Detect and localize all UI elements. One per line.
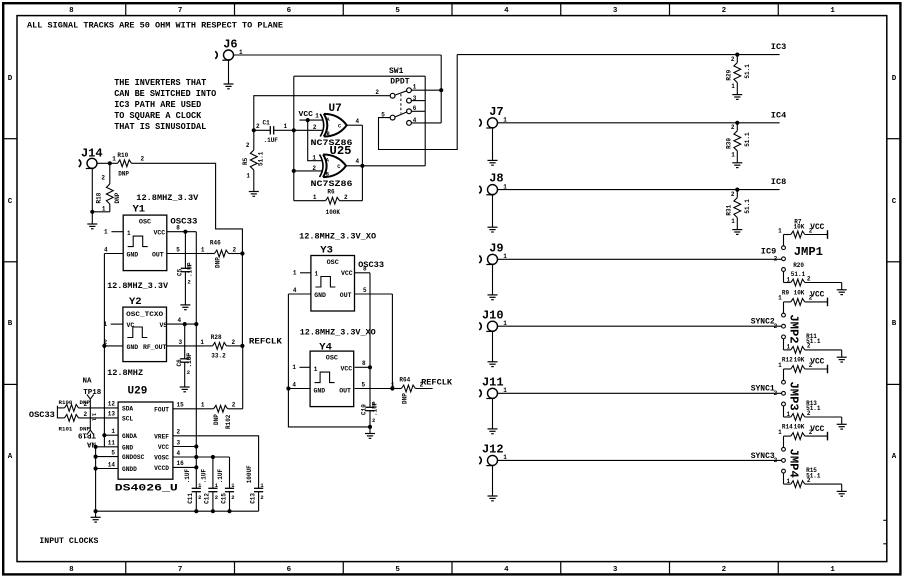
svg-text:DS4026_U: DS4026_U (115, 482, 178, 494)
svg-text:6: 6 (287, 7, 292, 15)
jumper JMP4 (782, 447, 786, 451)
resistor R13 51.1 to ground (783, 406, 785, 417)
ground J10 (488, 361, 498, 363)
svg-text:2: 2 (256, 123, 260, 130)
resistor R101 DNP (57, 417, 64, 419)
wire J9 row (498, 258, 782, 260)
svg-text:VCC: VCC (810, 291, 824, 300)
svg-text:8: 8 (362, 360, 366, 367)
wire C15 from VOSC corner (229, 457, 231, 488)
wire SW1 pin3 to loop (411, 100, 425, 102)
wire Y2 pin2 GND (104, 345, 123, 347)
node REFCLK junction (240, 344, 244, 348)
svg-text:THAT IS SINUSOIDAL: THAT IS SINUSOIDAL (114, 122, 206, 132)
svg-text:2: 2 (722, 7, 727, 15)
wire J11 ground (492, 399, 494, 429)
svg-text:R102: R102 (225, 414, 232, 429)
svg-text:16: 16 (177, 460, 185, 467)
svg-text:10K: 10K (794, 224, 805, 231)
svg-text:1: 1 (284, 123, 288, 130)
svg-text:Y1: Y1 (133, 204, 146, 216)
svg-text:1: 1 (246, 173, 250, 180)
node Y4 OUT junction (390, 386, 394, 390)
svg-text:GNDA: GNDA (122, 433, 137, 440)
capacitor C10 .1UF (369, 367, 371, 407)
svg-text:B: B (8, 320, 13, 328)
svg-text:GND: GND (314, 292, 326, 299)
svg-text:OSC33: OSC33 (170, 216, 197, 226)
svg-text:2: 2 (84, 411, 88, 418)
ground J8 (488, 226, 498, 228)
svg-text:2: 2 (731, 56, 735, 63)
svg-text:2: 2 (177, 429, 181, 436)
ground C5 (180, 304, 190, 306)
svg-text:6: 6 (287, 566, 292, 574)
svg-text:DNP: DNP (80, 426, 91, 433)
wire Y1 pin5 OUT (167, 253, 206, 255)
wire FOUT row (173, 408, 206, 410)
svg-text:.1UF: .1UF (217, 468, 224, 483)
resistor R5 51.1 vertical (253, 130, 255, 150)
svg-text:.1UF: .1UF (264, 137, 279, 144)
svg-text:2: 2 (774, 323, 778, 330)
svg-text:51.1: 51.1 (791, 271, 806, 278)
wire J10 row (498, 325, 782, 327)
svg-text:7: 7 (178, 566, 183, 574)
svg-text:VOSC: VOSC (154, 455, 169, 462)
svg-text:J6: J6 (223, 38, 237, 52)
svg-text:JMP2: JMP2 (787, 314, 801, 343)
node IC4 junction (735, 121, 739, 125)
svg-text:VCC: VCC (158, 444, 169, 451)
ground R30 (732, 162, 742, 164)
node C1 input junction (252, 128, 256, 132)
wire OSC33 bracket (56, 406, 58, 419)
svg-text:2: 2 (375, 89, 379, 96)
svg-text:51.1: 51.1 (806, 338, 821, 345)
svg-text:4: 4 (504, 566, 509, 574)
VCC R9 (827, 298, 829, 307)
svg-text:J9: J9 (489, 241, 503, 255)
ground J7 (488, 159, 498, 161)
svg-text:5: 5 (362, 381, 366, 388)
node Y3Y4 ground junction (368, 425, 372, 429)
wire bottom ground rail (96, 510, 259, 512)
svg-text:SDA: SDA (122, 406, 133, 413)
svg-text:2: 2 (233, 246, 237, 253)
svg-text:1: 1 (731, 83, 735, 90)
svg-text:5: 5 (111, 449, 115, 456)
node Y2 VS cap junction (183, 322, 187, 326)
wire IC3 output row (457, 54, 779, 56)
svg-text:R5: R5 (242, 157, 249, 165)
svg-text:2: 2 (198, 494, 201, 501)
svg-text:OSC: OSC (139, 219, 151, 227)
svg-text:2: 2 (246, 142, 250, 149)
svg-text:VCC: VCC (810, 425, 824, 434)
svg-text:.1UF: .1UF (372, 401, 379, 416)
svg-text:U29: U29 (128, 385, 148, 397)
svg-text:2: 2 (731, 124, 735, 131)
svg-text:2: 2 (101, 175, 105, 182)
svg-text:SYNC3: SYNC3 (751, 452, 775, 461)
resistor R20 51.1 to ground (783, 271, 785, 282)
svg-text:2: 2 (344, 194, 348, 201)
svg-text:1: 1 (731, 151, 735, 158)
wire J7 ground (492, 128, 494, 161)
jumper JMP1 (782, 246, 786, 250)
svg-text:OSC33: OSC33 (358, 260, 384, 270)
wire Y4 pin8 VCC (355, 366, 370, 368)
svg-text:10K: 10K (794, 289, 805, 296)
wire R10 to REFCLK rail (141, 163, 242, 253)
capacitor C1 .1UF (254, 129, 270, 131)
node Y2 VS rail junction (194, 322, 198, 326)
svg-text:GND: GND (122, 444, 133, 451)
connector J14 (87, 158, 97, 168)
svg-text:1: 1 (830, 566, 835, 574)
svg-text:IC4: IC4 (771, 110, 786, 120)
svg-text:FOUT: FOUT (154, 407, 169, 414)
wire VCC pin to OSC33 rail (173, 446, 196, 448)
node GNDD junction (94, 466, 98, 470)
svg-text:VCC: VCC (341, 270, 353, 277)
wire OSC33 Y3-Y4 vertical (369, 273, 371, 368)
svg-text:51.1: 51.1 (744, 199, 751, 214)
svg-text:2: 2 (774, 390, 778, 397)
node GND junction (94, 445, 98, 449)
svg-text:OSC_TCXO: OSC_TCXO (126, 311, 163, 318)
resistor R18 DNP vertical (109, 163, 111, 184)
svg-text:VCCD: VCCD (154, 465, 169, 472)
wire J12 ground (492, 466, 494, 496)
svg-text:R14: R14 (782, 424, 793, 431)
test point TP19 (rotated) (87, 430, 90, 435)
svg-text:JMP3: JMP3 (787, 381, 801, 410)
svg-text:.1UF: .1UF (186, 353, 193, 368)
switch lever 2-1 (395, 91, 407, 95)
svg-text:12.8MHZ_3.3V_XO: 12.8MHZ_3.3V_XO (299, 231, 376, 241)
node VCC rail junction (194, 444, 198, 448)
svg-text:B: B (892, 320, 897, 328)
svg-text:JMP4: JMP4 (787, 449, 801, 478)
svg-text:OUT: OUT (339, 388, 351, 395)
resistor R46 (215, 250, 229, 257)
svg-text:100K: 100K (326, 209, 341, 216)
svg-text:VCC: VCC (154, 230, 166, 237)
svg-text:1: 1 (293, 270, 297, 277)
node R46/REFCLK rail junction (240, 251, 244, 255)
connector J8 (488, 185, 498, 195)
resistor R9 10K pullup (783, 302, 785, 313)
svg-text:2: 2 (260, 494, 263, 501)
svg-text:C5: C5 (177, 268, 184, 276)
svg-text:A: A (892, 453, 897, 461)
node Y1 VCC junction (183, 230, 187, 234)
svg-text:R31: R31 (726, 204, 733, 215)
ground C6 (180, 386, 190, 388)
svg-text:Y2: Y2 (129, 296, 142, 308)
connector J9 (488, 254, 498, 264)
resistor R7 10K pullup (783, 235, 785, 246)
svg-text:OSC: OSC (327, 259, 339, 267)
svg-text:12.8MHZ_3.3V: 12.8MHZ_3.3V (107, 281, 169, 291)
svg-text:B: B (326, 172, 329, 178)
small stubs right border (883, 519, 887, 521)
wire J14 to R10 (97, 162, 110, 164)
VCC R7 (827, 230, 829, 239)
svg-text:1: 1 (104, 229, 108, 236)
svg-text:4: 4 (178, 317, 182, 324)
wire VCCD pin (173, 466, 196, 468)
column ticks top/bottom (125, 3, 127, 15)
svg-text:4: 4 (177, 450, 181, 457)
wire J12 row (498, 459, 782, 461)
svg-text:1: 1 (200, 339, 204, 346)
svg-text:J8: J8 (489, 172, 503, 186)
svg-text:OUT: OUT (340, 292, 352, 299)
wire Y2 pin1 stub (111, 323, 123, 325)
node GNDOSC junction (94, 455, 98, 459)
svg-text:15: 15 (177, 402, 185, 409)
switch mechanical link dashed (400, 94, 402, 114)
svg-text:R10: R10 (117, 152, 128, 159)
svg-text:3: 3 (613, 566, 618, 574)
svg-text:OUT: OUT (152, 252, 164, 259)
svg-text:1: 1 (315, 112, 319, 119)
svg-text:8: 8 (69, 566, 74, 574)
resistor R12 10K pullup (783, 369, 785, 380)
svg-text:J10: J10 (482, 308, 504, 322)
connector J7 (488, 118, 498, 128)
wire J11 row (498, 392, 782, 394)
wire top feedback horizontal (294, 75, 425, 77)
svg-text:1: 1 (830, 7, 835, 15)
svg-text:100UF: 100UF (246, 465, 253, 483)
svg-text:GNDD: GNDD (122, 466, 137, 473)
svg-text:IC3: IC3 (771, 42, 786, 52)
wire J6 to SW1 (234, 54, 442, 56)
wire Y4 pin4 GND (288, 388, 310, 390)
jumper JMP3 (782, 380, 786, 384)
svg-text:1: 1 (731, 218, 735, 225)
svg-text:C1: C1 (263, 119, 271, 126)
svg-text:2: 2 (215, 494, 218, 501)
svg-text:1: 1 (127, 230, 131, 237)
wire Y2 pin3 RF_OUT (167, 345, 206, 347)
svg-text:R101: R101 (59, 426, 73, 433)
svg-text:C: C (337, 164, 340, 170)
svg-text:R12: R12 (782, 356, 793, 363)
ground R20 (841, 283, 843, 290)
svg-text:10K: 10K (794, 356, 805, 363)
ground R29 (732, 94, 742, 96)
svg-text:DPDT: DPDT (390, 78, 409, 87)
wire Y3 pin1 stub (300, 272, 311, 274)
node IC8 junction (735, 188, 739, 192)
svg-text:GNDOSC: GNDOSC (122, 454, 145, 461)
svg-text:5: 5 (363, 287, 367, 294)
svg-text:2: 2 (84, 401, 88, 408)
svg-text:C15: C15 (220, 493, 227, 504)
node IC3 junction (735, 53, 739, 57)
row ticks left/right (3, 138, 17, 140)
node VCC junction to U25 pin1 (306, 118, 310, 122)
wire Y3 pin8 VCC to OSC33 (355, 272, 371, 274)
svg-text:2: 2 (232, 339, 236, 346)
svg-text:INPUT CLOCKS: INPUT CLOCKS (39, 536, 98, 546)
svg-text:DNP: DNP (213, 414, 220, 425)
wire U25 pin2 (294, 170, 322, 172)
svg-text:B: B (327, 131, 330, 137)
wire ground rail TP19 side (95, 447, 97, 511)
svg-text:1: 1 (391, 381, 395, 388)
svg-text:VCC: VCC (810, 223, 824, 232)
svg-text:2: 2 (188, 279, 191, 286)
svg-text:J7: J7 (489, 105, 503, 119)
svg-text:1: 1 (315, 271, 319, 278)
svg-text:C6: C6 (176, 359, 183, 367)
svg-text:12.8MHZ_3.3V_XO: 12.8MHZ_3.3V_XO (300, 327, 376, 337)
ground R15 (841, 484, 843, 491)
wire U7 output (347, 124, 363, 126)
svg-text:12.8MHZ_3.3V: 12.8MHZ_3.3V (136, 193, 199, 203)
resistor R11 51.1 to ground (783, 339, 785, 350)
svg-text:D: D (892, 75, 897, 83)
svg-text:VCC: VCC (299, 111, 314, 119)
wire SW1 pin1 to J6 net (411, 89, 441, 91)
svg-text:R100: R100 (59, 399, 73, 406)
VCC R12 (827, 365, 829, 374)
resistor R10 DNP (110, 162, 118, 164)
wire REFCLK rail vertical (241, 254, 243, 346)
svg-text:C: C (892, 198, 897, 206)
wire J10 ground (492, 331, 494, 361)
svg-text:VREF: VREF (154, 434, 169, 441)
wire SW1 pin6 to loop (411, 110, 425, 112)
svg-text:3: 3 (179, 339, 183, 346)
svg-text:2: 2 (774, 256, 778, 263)
node Y4 GND junction (286, 386, 290, 390)
svg-text:2: 2 (774, 457, 778, 464)
wire IC8 row (498, 189, 780, 191)
svg-text:12: 12 (108, 401, 116, 408)
svg-text:J14: J14 (81, 147, 103, 161)
wire J8 ground (492, 195, 494, 228)
ground J14 (91, 168, 93, 224)
svg-text:R46: R46 (210, 239, 221, 246)
node Y2 GND junction (102, 344, 106, 348)
svg-text:VCC: VCC (341, 366, 353, 373)
wire OSC33 rail vertical (195, 232, 197, 489)
svg-text:1: 1 (111, 428, 115, 435)
svg-text:IC3 PATH ARE USED: IC3 PATH ARE USED (114, 100, 201, 110)
svg-text:2: 2 (232, 402, 236, 409)
svg-text:C13: C13 (249, 493, 256, 504)
wire GNDOSC pin (96, 456, 119, 458)
svg-text:C12: C12 (204, 493, 211, 504)
svg-text:51.1: 51.1 (258, 151, 265, 166)
svg-text:2: 2 (807, 275, 811, 282)
svg-text:GND: GND (127, 344, 139, 351)
svg-text:4: 4 (292, 382, 296, 389)
svg-text:51.1: 51.1 (744, 132, 751, 147)
wire U25 output to SW1 loop (346, 165, 425, 167)
wire Y4 pin5 OUT (355, 388, 393, 390)
wire C12 from VOSC (212, 457, 214, 488)
svg-text:RF_OUT: RF_OUT (143, 344, 167, 351)
wire Y3 pin4 GND (288, 293, 311, 295)
svg-text:2: 2 (731, 191, 735, 198)
svg-text:OSC: OSC (326, 355, 338, 363)
wire VREF to C13 (173, 436, 259, 489)
svg-text:JMP1: JMP1 (794, 245, 823, 259)
node SW1 pin1 junction (439, 88, 443, 92)
svg-text:33.2: 33.2 (211, 352, 226, 359)
svg-text:4: 4 (356, 158, 360, 165)
connector J12 (488, 455, 498, 465)
svg-text:4: 4 (356, 118, 360, 125)
svg-text:2: 2 (141, 156, 145, 163)
svg-text:C: C (8, 198, 13, 206)
wire VCC node down to U25 pin1 (308, 120, 323, 161)
svg-text:1: 1 (292, 364, 296, 371)
svg-text:51.1: 51.1 (806, 405, 821, 412)
node GNDA junction (102, 433, 106, 437)
svg-text:13: 13 (108, 411, 116, 418)
wire VOSC pin (173, 456, 230, 458)
ground J9 (488, 294, 498, 296)
connector J11 (488, 388, 498, 398)
svg-text:CAN BE SWITCHED INTO: CAN BE SWITCHED INTO (114, 89, 216, 99)
svg-text:12.8MHZ: 12.8MHZ (107, 368, 143, 378)
node VOSC rail junction (194, 455, 198, 459)
wire left feedback vertical (293, 76, 295, 201)
svg-text:J11: J11 (482, 375, 504, 389)
jumper JMP2 (782, 313, 786, 317)
svg-text:DNP: DNP (114, 192, 121, 203)
resistor R15 51.1 to ground (783, 473, 785, 484)
wire J9 ground (492, 265, 494, 295)
svg-text:51.1: 51.1 (744, 64, 751, 79)
svg-text:2: 2 (187, 369, 190, 376)
svg-text:10K: 10K (794, 424, 805, 431)
svg-text:1: 1 (201, 402, 205, 409)
ground J11 (488, 428, 498, 430)
svg-text:5: 5 (395, 566, 400, 574)
svg-text:DNP: DNP (402, 393, 409, 404)
wire GND pin (96, 446, 119, 448)
wire Y1 pin8 VCC to OSC33 rail (167, 231, 197, 233)
svg-text:GND: GND (314, 388, 326, 395)
connector J6 (224, 50, 234, 60)
svg-text:4: 4 (293, 287, 297, 294)
wire FOUT to REFCLK rail (242, 346, 244, 409)
svg-text:R30: R30 (726, 138, 733, 149)
node bottom rail junction (94, 509, 98, 513)
wire Y3 pin5 OUT (355, 293, 393, 295)
svg-text:2: 2 (231, 494, 234, 501)
svg-text:4: 4 (104, 247, 108, 254)
svg-text:11: 11 (108, 440, 116, 447)
wire R6 right vertical (361, 166, 363, 201)
ground R13 (841, 417, 843, 424)
svg-text:14: 14 (108, 461, 116, 468)
ground J12 (488, 495, 498, 497)
svg-text:51.1: 51.1 (806, 472, 821, 479)
svg-text:DNP: DNP (118, 171, 129, 178)
svg-text:VS: VS (160, 322, 168, 329)
